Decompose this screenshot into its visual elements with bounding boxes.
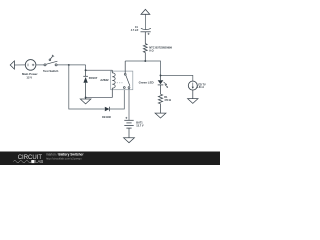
- footer bar: [0, 152, 220, 166]
- wire: [192, 90, 194, 99]
- resistor R2 NTC B57236S0999: [143, 32, 147, 61]
- svg-text:9 Ω: 9 Ω: [149, 49, 153, 53]
- switch SW1 Test Switch: [44, 55, 57, 66]
- svg-text:Green LED: Green LED: [139, 80, 154, 84]
- battery BAT1 13.7 V: [124, 117, 133, 128]
- ground: [155, 113, 166, 118]
- capacitor C1 4.7 mF: [141, 28, 151, 35]
- voltage source V1 Main Power 12V: [25, 60, 36, 71]
- wire: [14, 64, 25, 66]
- svg-text:13.7 V: 13.7 V: [136, 124, 144, 127]
- LED D3 Green LED: [158, 75, 168, 94]
- wire: [144, 14, 146, 29]
- resistor R1 470 ohm: [158, 94, 162, 104]
- logo CircuitLab: [13, 155, 43, 164]
- wire: [86, 65, 113, 70]
- label LED TV 1.61 A: [197, 83, 206, 89]
- svg-text:Test Switch: Test Switch: [43, 69, 59, 73]
- diode D1 FR107: [83, 70, 88, 97]
- node junction: [85, 69, 87, 71]
- svg-text:LAB: LAB: [35, 159, 43, 164]
- svg-text:12 V: 12 V: [26, 75, 32, 79]
- wire (vertical drop + bottom run): [69, 65, 105, 109]
- ground: [124, 138, 135, 143]
- svg-text:470 Ω: 470 Ω: [164, 99, 171, 102]
- svg-text:1N4148: 1N4148: [102, 116, 111, 119]
- wire: [128, 128, 130, 138]
- svg-text:http://circuitlab.com/c2ywsqx: http://circuitlab.com/c2ywsqx: [46, 157, 82, 161]
- label R1 470: [164, 96, 171, 102]
- relay K1 AZ832: [111, 61, 133, 98]
- node junction: [85, 97, 87, 99]
- wire: [110, 88, 125, 109]
- wire (ground net to coil): [86, 97, 113, 99]
- wire: [160, 104, 162, 113]
- label BAT1 13.7 V: [136, 121, 144, 127]
- label NTC: [149, 45, 172, 52]
- svg-text:4.7 mF: 4.7 mF: [131, 29, 139, 32]
- port P1 (left, Main Power): [10, 61, 14, 69]
- wire: [36, 64, 44, 66]
- wire (relay common to right): [125, 61, 193, 81]
- diode D2 1N4148: [105, 107, 110, 112]
- svg-text:AZ832: AZ832: [100, 78, 109, 82]
- ground: [188, 99, 198, 104]
- svg-text:FR107: FR107: [89, 76, 98, 80]
- node junction: [160, 74, 162, 76]
- node junction: [68, 64, 70, 66]
- wire rail A: [57, 64, 86, 66]
- wire (relay throw B down to battery): [128, 88, 130, 120]
- port P2 (top): [141, 9, 150, 14]
- svg-text:1.61 A: 1.61 A: [197, 86, 204, 89]
- node junction: [144, 60, 146, 62]
- current source I1 LED TV 1.61 A: [188, 81, 197, 90]
- label Main Power 12 V: [22, 72, 38, 79]
- ground: [80, 98, 91, 104]
- label C1: [131, 26, 139, 32]
